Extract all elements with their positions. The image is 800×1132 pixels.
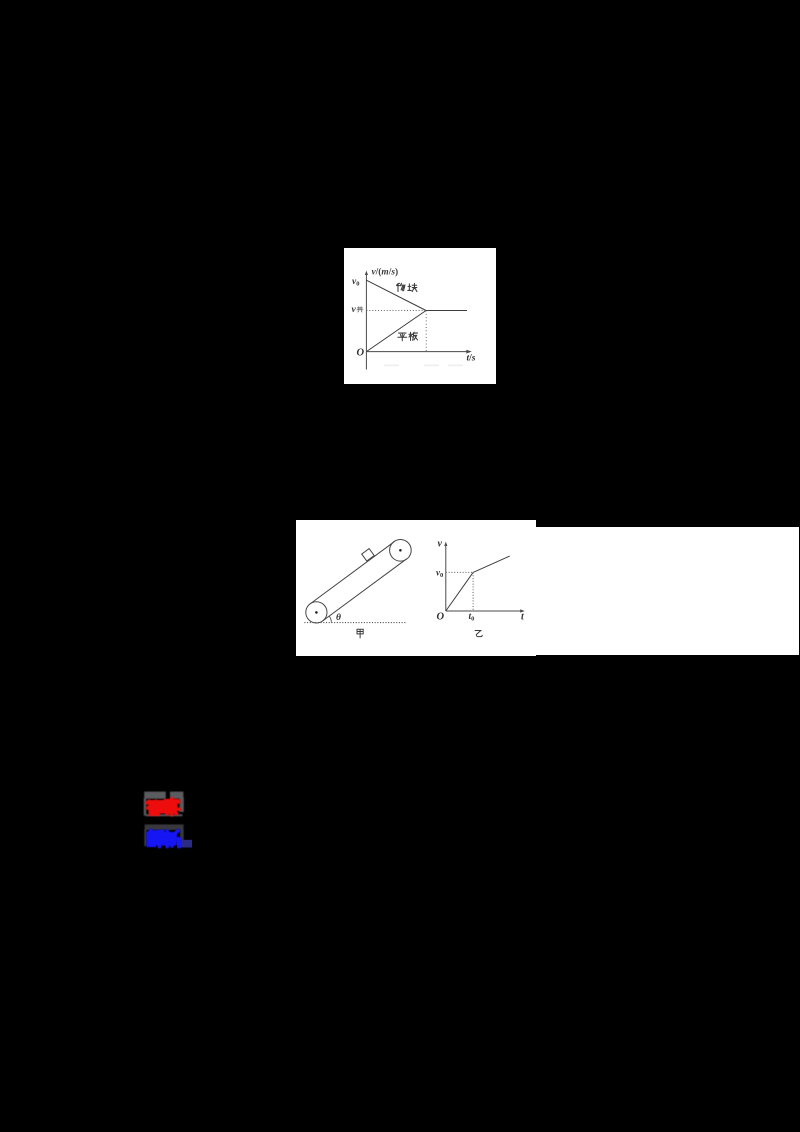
caption jia — [357, 629, 363, 638]
angle arc — [329, 616, 331, 622]
dotted line to t0 — [472, 572, 474, 611]
lower pulley — [306, 602, 327, 623]
svg-text:v: v — [438, 539, 443, 550]
upper pulley — [390, 540, 412, 562]
t axis of graph yi — [446, 610, 522, 612]
t axis arrowhead — [520, 609, 525, 612]
label 物块 — [396, 283, 416, 291]
blue text analysis — [148, 831, 179, 847]
x-axis — [366, 351, 468, 353]
faint ghost rows — [384, 365, 399, 367]
white panel background right — [536, 527, 799, 655]
x-axis arrowhead — [466, 350, 472, 354]
v axis arrowhead — [444, 542, 447, 546]
panel 1: v-t graph of block and plank — [344, 248, 496, 384]
y-axis — [365, 274, 367, 370]
gray shadow tabs of answer stamp — [144, 792, 184, 817]
shallower line after t0 — [473, 556, 510, 572]
v axis of graph yi — [445, 545, 447, 612]
dark shadow of analysis stamp — [144, 824, 184, 846]
answer stamp (red) and analysis stamp (blue) — [140, 788, 196, 852]
dotted line at v_gong — [366, 310, 426, 312]
belt upper run — [310, 542, 394, 604]
belt lower run — [323, 559, 407, 621]
panel 2: conveyor belt (jia) and v-t graph (yi) — [296, 520, 799, 656]
line: plank accelerating — [366, 311, 426, 352]
svg-text:O: O — [357, 348, 365, 359]
red text answer — [147, 799, 179, 815]
svg-text:t/s: t/s — [467, 354, 476, 364]
vertical dotted line at meeting time — [425, 311, 427, 352]
svg-text:θ: θ — [336, 613, 341, 623]
dotted baseline — [304, 622, 405, 624]
navy fragment — [177, 840, 192, 848]
svg-text:v/(m/s): v/(m/s) — [372, 266, 399, 277]
line: common velocity after meeting — [426, 310, 467, 312]
svg-text:O: O — [437, 612, 445, 623]
white panel background left — [296, 520, 536, 656]
caption yi — [475, 630, 482, 636]
upper pulley axle dot — [399, 549, 402, 552]
white panel background — [344, 248, 496, 384]
dotted line to v0 — [446, 571, 473, 573]
label 平板 — [398, 332, 418, 341]
line: block decelerating — [366, 280, 426, 310]
block on belt — [362, 549, 375, 561]
y-axis arrowhead — [365, 271, 368, 275]
lower pulley axle dot — [315, 611, 318, 614]
rising line to v0 — [446, 572, 473, 611]
